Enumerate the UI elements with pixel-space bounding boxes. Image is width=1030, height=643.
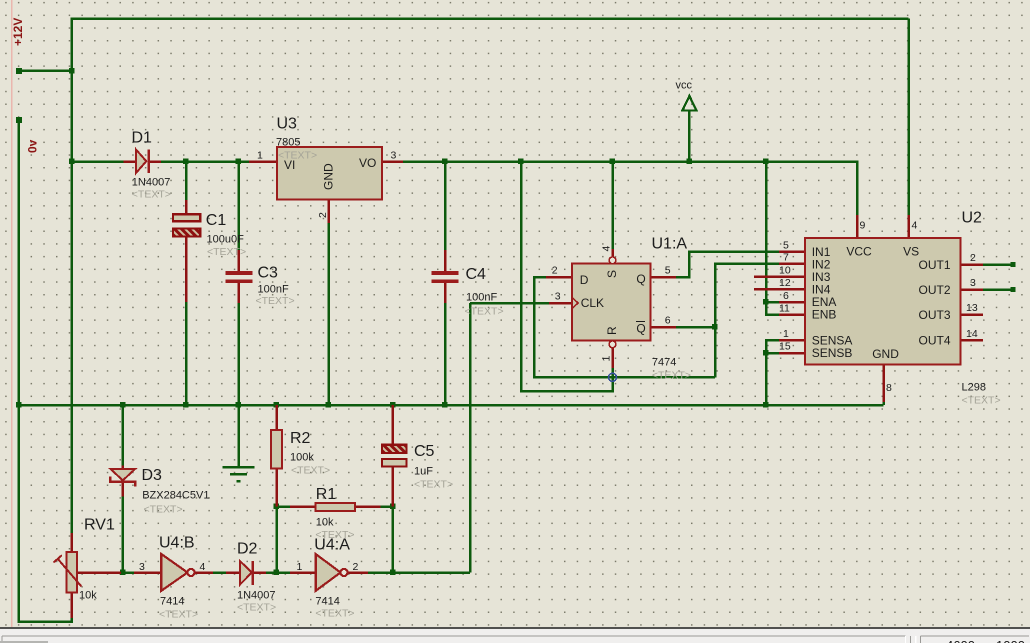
wire OUT2 stub [983, 288, 1012, 291]
wire SENSB tie [766, 352, 779, 355]
wire D1 cathode to U3 VI [161, 160, 249, 163]
svg-text:U2: U2 [962, 210, 983, 227]
pin U3 VI [249, 160, 277, 163]
pin 7474 S [611, 249, 614, 257]
overbar for Qbar [636, 321, 645, 323]
svg-text:12: 12 [779, 277, 791, 289]
svg-text:GND: GND [872, 347, 899, 361]
svg-text:3: 3 [391, 150, 397, 162]
svg-text:1: 1 [297, 561, 303, 573]
wire OUT1 stub [983, 263, 1012, 266]
junction D2 cathode node [274, 570, 280, 576]
junction ENA feed top [763, 159, 769, 165]
pin RV1 bottom [71, 593, 74, 619]
junction C1 top [183, 159, 189, 165]
svg-text:6: 6 [783, 290, 789, 302]
svg-text:<TEXT>: <TEXT> [207, 246, 246, 258]
svg-text:3: 3 [139, 561, 145, 573]
wire S-pin drop from +5 rail [611, 162, 614, 250]
flip-flop U1:A 7474 body [572, 264, 651, 341]
pin D1 anode [123, 160, 135, 163]
svg-text:1N4007: 1N4007 [237, 590, 276, 602]
junction bus C4 [442, 402, 448, 408]
svg-text:<TEXT>: <TEXT> [962, 395, 1001, 407]
wire C1 bottom to bus [185, 302, 188, 405]
junction U4:A out node [390, 570, 396, 576]
junction Qbar node [712, 324, 718, 330]
inverter U4:B [161, 554, 194, 591]
wire R1 left link [277, 505, 291, 508]
capacitor C4 plates [432, 273, 459, 281]
wire tie route rail to R node [521, 162, 613, 392]
svg-text:Q: Q [636, 322, 645, 336]
7474 clock triangle [572, 298, 578, 309]
svg-text:7: 7 [783, 252, 789, 264]
svg-text:4: 4 [200, 561, 206, 573]
wire R2 bottom to D2 node [275, 507, 278, 573]
svg-text:OUT1: OUT1 [918, 258, 950, 272]
svg-text:<TEXT>: <TEXT> [652, 370, 691, 382]
svg-text:2: 2 [353, 561, 359, 573]
pin U3 GND [327, 200, 330, 224]
wire ground bus [19, 404, 884, 407]
svg-text:U3: U3 [277, 116, 298, 133]
junction C4 top [442, 159, 448, 165]
svg-text:<TEXT>: <TEXT> [414, 479, 453, 491]
wire U4:B out to D2 [213, 571, 226, 574]
wire D3 bottom to wiper row [122, 496, 125, 572]
regulator U3 7805 body [277, 147, 382, 200]
svg-text:7805: 7805 [276, 137, 300, 149]
pin 7474 CLK [549, 302, 572, 305]
canvas bottom border [0, 627, 1030, 629]
svg-text:4: 4 [912, 220, 918, 232]
svg-text:D: D [580, 273, 589, 287]
diode D1 [136, 149, 149, 173]
svg-text:3: 3 [970, 277, 976, 289]
svg-text:GND: GND [322, 163, 336, 190]
junction +12V tee [69, 68, 75, 74]
capacitor C1 plates [173, 214, 200, 236]
ground symbol [223, 467, 255, 481]
svg-text:U4:A: U4:A [314, 537, 350, 554]
pin L298 SENSA [779, 339, 805, 342]
7474 R bubble [609, 341, 616, 348]
svg-text:U1:A: U1:A [652, 235, 688, 252]
wire C5 bottom to U4:A out node [391, 507, 394, 573]
svg-text:14: 14 [966, 328, 978, 340]
zener D3 [110, 469, 135, 487]
pin RV1 top [71, 533, 74, 552]
svg-text:7474: 7474 [652, 356, 676, 368]
svg-text:SENSB: SENSB [812, 346, 853, 360]
svg-text:OUT4: OUT4 [918, 334, 950, 348]
wire +12V terminal stub [19, 70, 72, 73]
svg-text:R1: R1 [316, 486, 337, 503]
svg-text:4600: 4600 [946, 638, 975, 643]
pin R2 top [275, 405, 278, 430]
svg-text:RV1: RV1 [84, 517, 115, 534]
node OUT1 terminal dot [1011, 262, 1016, 267]
pin C4 bottom [444, 283, 447, 304]
svg-text:<TEXT>: <TEXT> [132, 189, 171, 201]
svg-text:D2: D2 [237, 541, 258, 558]
pin L298 OUT1 [961, 263, 984, 266]
wire D2 cathode node [266, 571, 290, 574]
svg-text:BZX284C5V1: BZX284C5V1 [142, 490, 209, 502]
pin R1 left [290, 505, 315, 508]
svg-text:100u0F: 100u0F [207, 233, 245, 245]
power symbol vcc arrow [682, 96, 696, 111]
pin RV1 wiper [78, 571, 121, 574]
pin C4 top [444, 250, 447, 272]
junction S drop top [610, 159, 616, 165]
svg-text:C3: C3 [258, 265, 279, 282]
potentiometer RV1 [54, 552, 82, 593]
wire junction down to R node [714, 327, 717, 377]
pin 7474 Q [651, 276, 677, 279]
wire ENA/ENB feed from +5 rail [766, 162, 779, 303]
wire SENSA tie [766, 340, 779, 405]
junction R1 left node [274, 504, 280, 510]
pin C5 bottom [391, 467, 394, 507]
pin U4:A in [290, 571, 315, 574]
pin C3 top [237, 250, 240, 272]
svg-text:2: 2 [552, 265, 558, 277]
wire 0v rail left [19, 120, 72, 622]
svg-text:VI: VI [284, 158, 295, 172]
pin 7474 D [546, 276, 572, 279]
junction VCC symbol [687, 159, 693, 165]
svg-text:<TEXT>: <TEXT> [256, 295, 295, 307]
pin L298 VCC [856, 215, 859, 238]
pin L298 OUT4 [961, 339, 984, 342]
svg-text:OUT3: OUT3 [918, 308, 950, 322]
svg-text:10: 10 [779, 265, 791, 277]
pin D1 cathode [150, 160, 162, 163]
wire D-pin route [534, 277, 715, 377]
svg-text:D1: D1 [132, 130, 153, 147]
svg-text:1uF: 1uF [414, 466, 433, 478]
pin L298 ENB [779, 313, 805, 316]
pin R1 right [355, 505, 381, 508]
svg-text:ENB: ENB [812, 308, 837, 322]
driver U2 L298 body [805, 238, 961, 365]
svg-text:VS: VS [903, 245, 919, 259]
junction R1 right node [390, 504, 396, 510]
junction SENSB row [763, 350, 769, 356]
junction bus 0v rail [16, 402, 22, 408]
svg-text:+12V: +12V [11, 18, 25, 46]
svg-text:Q: Q [636, 272, 645, 286]
pin U4:B out [195, 571, 214, 574]
wire C3 top [237, 162, 240, 251]
diode D2 [240, 561, 253, 585]
wire R1 right link [381, 505, 393, 508]
pin D3 bottom [122, 482, 125, 496]
pin L298 SENSB [779, 352, 805, 355]
junction ENA row [763, 299, 769, 305]
capacitor C5 plates [382, 445, 407, 467]
svg-text:3: 3 [555, 291, 561, 303]
wire RV1 wiper link [121, 571, 134, 574]
junction tie route top [518, 159, 524, 165]
wire Qbar to junction [676, 326, 715, 329]
pin R2 bottom [275, 469, 278, 507]
junction bus D3 [120, 402, 126, 408]
junction bus U3 GND [326, 402, 332, 408]
wire C1 top [185, 162, 188, 201]
svg-text:6: 6 [665, 315, 671, 327]
svg-text:VO: VO [359, 156, 376, 170]
svg-text:5: 5 [665, 265, 671, 277]
node 0v terminal dot [16, 117, 22, 123]
junction D1 net at x=71.8 [69, 159, 75, 165]
svg-text:R: R [605, 326, 619, 335]
wire U4:A out run [368, 571, 470, 574]
pin D3 top [122, 466, 125, 469]
wire VCC symbol stem [688, 110, 691, 162]
svg-text:<TEXT>: <TEXT> [291, 465, 330, 477]
svg-text:8: 8 [886, 382, 892, 394]
pin L298 IN4 [754, 288, 805, 291]
svg-text:100nF: 100nF [258, 284, 289, 296]
inverter U4:A [316, 554, 348, 591]
pin D2 anode [226, 571, 240, 574]
pin L298 IN1 [779, 250, 805, 253]
svg-text:13: 13 [966, 302, 978, 314]
junction bus C5 [390, 402, 396, 408]
wire +5V rail from U3 VO [403, 162, 857, 216]
resistor R2 body [271, 430, 282, 469]
pin C5 top [391, 405, 394, 445]
svg-text:<TEXT>: <TEXT> [315, 608, 354, 620]
pin D2 cathode [254, 571, 267, 574]
svg-text:<TEXT>: <TEXT> [159, 609, 198, 621]
svg-text:vcc: vcc [676, 80, 693, 92]
pin L298 OUT2 [961, 288, 984, 291]
wire D3 top from bus [122, 405, 125, 466]
wire Q to IN1 [676, 252, 779, 278]
wire D1 anode segment [72, 160, 124, 163]
wire ENA to ENB tie [766, 302, 779, 315]
pin 7474 Qbar [651, 326, 677, 329]
wire L298 GND corner [882, 402, 885, 405]
svg-text:S: S [605, 270, 619, 278]
junction bus R2 [274, 402, 280, 408]
pin L298 VS [907, 215, 910, 238]
pin L298 OUT3 [961, 313, 984, 316]
svg-text:10k: 10k [79, 590, 97, 602]
wire R pin lower [611, 368, 614, 377]
svg-text:<TEXT>: <TEXT> [237, 602, 276, 614]
svg-text:OUT2: OUT2 [918, 283, 950, 297]
svg-text:100nF: 100nF [466, 292, 497, 304]
junction bus ground [236, 402, 242, 408]
svg-text:U4:B: U4:B [159, 535, 195, 552]
svg-text:2: 2 [317, 212, 329, 218]
wire CLK route [470, 302, 549, 305]
pin C1 top [185, 200, 188, 214]
junction bus SENS tie [763, 402, 769, 408]
svg-text:<TEXT>: <TEXT> [465, 306, 504, 318]
sheet border pink line [11, 0, 12, 628]
resistor R1 body [315, 503, 355, 511]
wire C3 bottom to bus [237, 303, 240, 405]
svg-text:100k: 100k [290, 452, 314, 464]
wire bus to ground symbol [237, 405, 240, 466]
pin L298 ENA [779, 301, 805, 304]
svg-text:5: 5 [783, 240, 789, 252]
svg-text:VCC: VCC [846, 245, 872, 259]
svg-text:C1: C1 [206, 212, 227, 229]
svg-text:1: 1 [601, 356, 613, 362]
capacitor C3 plates [226, 273, 253, 281]
wire C4 top [444, 162, 447, 251]
pin L298 IN2 [779, 262, 805, 265]
wire CLK vertical [469, 303, 472, 573]
wire U3 GND pin to bus [327, 223, 330, 405]
svg-text:<TEXT>: <TEXT> [144, 503, 183, 515]
wire junction up to IN2 [715, 264, 779, 328]
junction wiper D3 node [120, 570, 126, 576]
svg-text:R2: R2 [290, 430, 311, 447]
pin L298 GND [882, 365, 885, 403]
svg-text:1N4007: 1N4007 [132, 177, 171, 189]
pin C1 bottom [185, 236, 188, 302]
7474 S bubble [609, 257, 616, 264]
svg-text:L298: L298 [962, 382, 986, 394]
svg-text:2: 2 [970, 252, 976, 264]
svg-text:1: 1 [257, 150, 263, 162]
node +12V terminal dot [16, 68, 22, 74]
svg-text:11: 11 [779, 303, 790, 315]
svg-text:10k: 10k [316, 517, 334, 529]
svg-text:1000: 1000 [996, 638, 1025, 643]
wire VS drop from top rail [907, 19, 910, 216]
svg-text:C5: C5 [414, 443, 435, 460]
svg-text:15: 15 [779, 341, 791, 353]
svg-text:0v: 0v [26, 139, 40, 153]
pin L298 IN3 [754, 275, 805, 278]
wire +12V vertical x=71.8 [71, 18, 74, 534]
node OUT2 terminal dot [1011, 287, 1016, 292]
svg-text:9: 9 [860, 220, 866, 232]
svg-text:7414: 7414 [315, 596, 339, 608]
svg-text:1: 1 [783, 328, 789, 340]
svg-text:D3: D3 [142, 467, 163, 484]
junction C3 top [236, 159, 242, 165]
pin U3 VO [382, 160, 403, 163]
node blue junction circle [609, 373, 617, 381]
pin C3 bottom [237, 283, 240, 304]
status bar [0, 629, 1030, 643]
pin 7474 R [611, 348, 614, 368]
pin U4:A out [348, 571, 368, 574]
svg-text:C4: C4 [466, 266, 487, 283]
wire +12V top rail [72, 17, 909, 20]
pin U4:B in [134, 571, 161, 574]
svg-text:CLK: CLK [581, 296, 604, 310]
junction bus C1 [183, 402, 189, 408]
svg-text:7414: 7414 [160, 596, 184, 608]
svg-text:4: 4 [601, 246, 613, 252]
wire C4 bottom to bus [444, 303, 447, 405]
